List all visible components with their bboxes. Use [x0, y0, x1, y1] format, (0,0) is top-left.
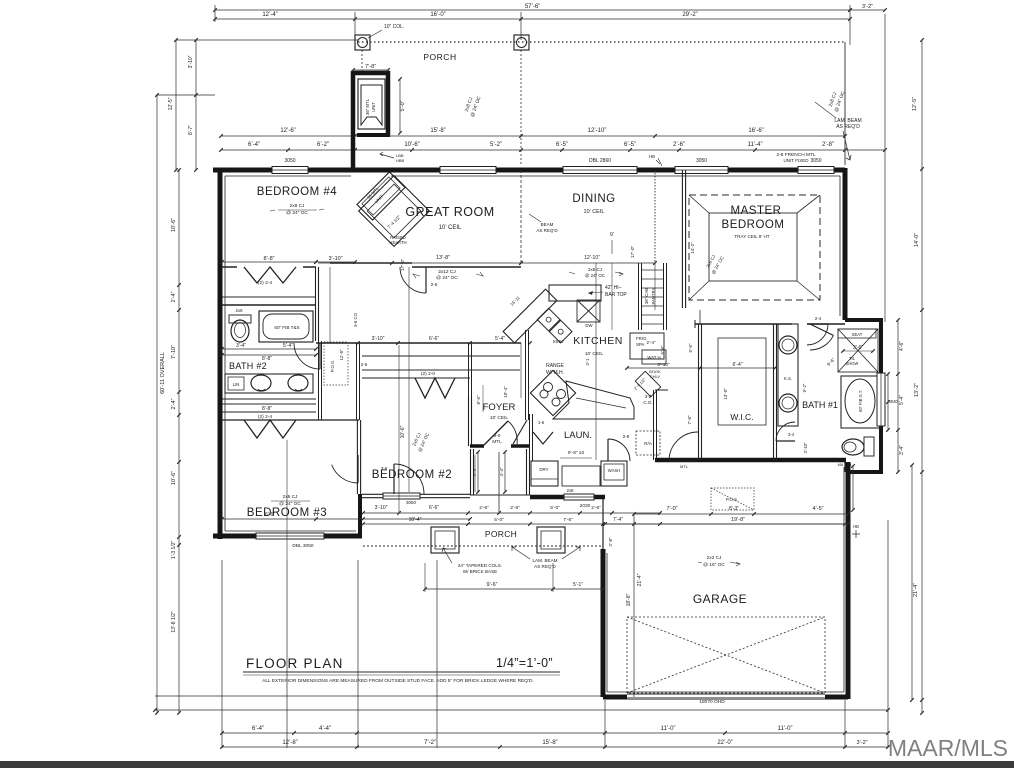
svg-text:SPA: SPA	[636, 342, 645, 347]
svg-text:BEDROOM: BEDROOM	[722, 219, 785, 231]
svg-text:FOYER: FOYER	[483, 402, 516, 413]
svg-text:3050: 3050	[696, 158, 707, 164]
svg-text:MTL: MTL	[492, 439, 502, 445]
svg-text:7’-10”: 7’-10”	[171, 345, 177, 359]
svg-text:42” HI–: 42” HI–	[605, 285, 622, 291]
svg-text:BEAM: BEAM	[541, 222, 554, 227]
svg-text:BEDROOM #4: BEDROOM #4	[257, 186, 338, 198]
svg-text:7’-0”: 7’-0”	[666, 506, 677, 512]
svg-text:HBB: HBB	[396, 158, 405, 163]
svg-text:1/4”=1’-0”: 1/4”=1’-0”	[496, 656, 553, 670]
svg-text:2x8 CJ: 2x8 CJ	[283, 494, 299, 500]
svg-text:5’-4”: 5’-4”	[899, 395, 905, 405]
svg-text:6’-4”: 6’-4”	[252, 726, 264, 732]
svg-text:10’-6”: 10’-6”	[400, 425, 406, 438]
svg-text:3’-1: 3’-1	[585, 358, 590, 366]
svg-text:FRIG: FRIG	[636, 336, 647, 341]
svg-text:2’-8”: 2’-8”	[822, 142, 834, 148]
svg-text:7’-4”: 7’-4”	[613, 517, 623, 523]
svg-text:2’-6”: 2’-6”	[510, 505, 520, 511]
svg-text:PORCH: PORCH	[423, 52, 456, 62]
svg-text:6’-6”: 6’-6”	[265, 512, 275, 518]
svg-text:1’-3 1/2”: 1’-3 1/2”	[171, 540, 177, 559]
svg-text:8’-3”: 8’-3”	[729, 506, 739, 512]
svg-text:LIN: LIN	[233, 382, 240, 387]
svg-text:AS REQ’D: AS REQ’D	[536, 228, 558, 233]
svg-text:18’-8”: 18’-8”	[626, 593, 632, 606]
svg-text:3050: 3050	[284, 158, 295, 164]
svg-text:11’-0”: 11’-0”	[778, 726, 793, 732]
svg-text:LAM. BEAM: LAM. BEAM	[532, 558, 557, 563]
svg-text:6’-5”: 6’-5”	[556, 142, 568, 148]
svg-text:SEAT: SEAT	[852, 332, 863, 337]
svg-text:14’-2”: 14’-2”	[690, 242, 695, 254]
svg-text:8’-8”: 8’-8”	[263, 256, 274, 262]
svg-text:K.S.: K.S.	[784, 376, 792, 381]
svg-text:2-4: 2-4	[815, 316, 822, 321]
svg-text:3050: 3050	[406, 500, 417, 505]
svg-text:2’-6”: 2’-6”	[673, 142, 685, 148]
svg-text:5’-1”: 5’-1”	[573, 582, 583, 588]
svg-text:36” CAB: 36” CAB	[644, 288, 649, 304]
svg-text:57’-6”: 57’-6”	[525, 4, 540, 10]
svg-text:3-6: 3-6	[381, 466, 388, 471]
svg-text:10’-6”: 10’-6”	[171, 218, 177, 232]
svg-text:5’-0”: 5’-0”	[550, 505, 560, 511]
svg-text:15’-8”: 15’-8”	[542, 740, 557, 746]
svg-text:KITCHEN: KITCHEN	[573, 335, 623, 347]
svg-text:2x8: 2x8	[567, 488, 574, 493]
svg-text:2-8: 2-8	[623, 434, 630, 439]
svg-text:3’-10”: 3’-10”	[803, 442, 808, 454]
svg-text:19’-8”: 19’-8”	[731, 517, 745, 523]
svg-text:4’-4”: 4’-4”	[319, 726, 331, 732]
svg-text:12’-5”: 12’-5”	[168, 97, 174, 110]
svg-text:BATH #2: BATH #2	[229, 361, 267, 371]
svg-text:17’-0”: 17’-0”	[400, 258, 406, 271]
svg-text:15’-8”: 15’-8”	[430, 128, 445, 134]
svg-text:DRY: DRY	[539, 467, 548, 472]
svg-text:5’-6”: 5’-6”	[660, 345, 665, 355]
svg-text:10’-4”: 10’-4”	[503, 386, 508, 398]
svg-text:9’: 9’	[610, 232, 614, 238]
svg-text:21’-4”: 21’-4”	[637, 573, 643, 586]
svg-text:7’-6”: 7’-6”	[563, 517, 573, 523]
svg-text:DBL 2860: DBL 2860	[589, 158, 611, 164]
svg-text:13’-0”: 13’-0”	[723, 388, 728, 400]
svg-text:(2) 2-0: (2) 2-0	[421, 371, 435, 377]
svg-text:HB: HB	[853, 524, 859, 529]
svg-text:@ 24” OC: @ 24” OC	[585, 273, 606, 278]
svg-text:2’-4”: 2’-4”	[646, 340, 656, 345]
svg-text:10’-6”: 10’-6”	[404, 142, 419, 148]
svg-text:SHLV: SHLV	[650, 374, 660, 379]
svg-text:3’-2”: 3’-2”	[856, 740, 867, 746]
svg-text:2’-6”: 2’-6”	[479, 505, 489, 511]
svg-text:2’-8”: 2’-8”	[608, 537, 613, 547]
svg-text:60” FIB G.T.: 60” FIB G.T.	[858, 390, 863, 412]
svg-text:36” MTL: 36” MTL	[365, 98, 370, 115]
svg-text:11’-4”: 11’-4”	[748, 142, 763, 148]
svg-text:7’-8”: 7’-8”	[365, 64, 376, 70]
svg-text:2x2 CJ: 2x2 CJ	[707, 555, 723, 561]
svg-text:4’-4”: 4’-4”	[472, 467, 477, 477]
svg-text:SINK: SINK	[553, 339, 565, 344]
svg-text:6’-6”: 6’-6”	[429, 505, 439, 511]
svg-text:7’-2”: 7’-2”	[424, 740, 436, 746]
svg-text:10’ CEIL: 10’ CEIL	[585, 351, 604, 357]
svg-text:BEDROOM #3: BEDROOM #3	[247, 507, 327, 519]
svg-text:2-6: 2-6	[431, 282, 438, 287]
svg-text:DINING: DINING	[572, 193, 615, 205]
svg-text:9’-2”: 9’-2”	[802, 383, 807, 392]
svg-text:10’-6”: 10’-6”	[171, 471, 177, 485]
svg-text:2-8: 2-8	[681, 458, 688, 463]
svg-text:6’-2”: 6’-2”	[317, 142, 329, 148]
svg-text:WASH: WASH	[608, 468, 620, 473]
svg-text:MAAR/MLS: MAAR/MLS	[888, 735, 1008, 761]
svg-text:10’ CEIL: 10’ CEIL	[439, 225, 462, 231]
svg-text:5’-4”: 5’-4”	[283, 343, 293, 349]
svg-text:BAR TOP: BAR TOP	[605, 292, 627, 298]
svg-text:2’-4”: 2’-4”	[171, 291, 177, 302]
svg-text:P.O.S.: P.O.S.	[726, 497, 738, 502]
svg-text:UNIT: UNIT	[371, 102, 376, 112]
svg-text:MASTER: MASTER	[731, 205, 782, 217]
svg-text:3’-4”: 3’-4”	[899, 445, 905, 455]
svg-text:9’-8” 10: 9’-8” 10	[568, 450, 585, 456]
svg-text:2-6: 2-6	[361, 362, 368, 367]
svg-text:5’-4”: 5’-4”	[495, 336, 505, 342]
svg-text:3-0: 3-0	[645, 394, 652, 399]
svg-text:3050: 3050	[810, 158, 821, 164]
svg-text:13’-2”: 13’-2”	[914, 383, 920, 397]
svg-text:@ 24” OC: @ 24” OC	[279, 501, 301, 507]
svg-text:8’-7”: 8’-7”	[188, 125, 194, 135]
svg-text:2030: 2030	[580, 503, 591, 509]
svg-text:@ 24” OC: @ 24” OC	[436, 275, 458, 281]
svg-text:LAUN.: LAUN.	[564, 430, 592, 441]
svg-text:5’-2”: 5’-2”	[490, 142, 502, 148]
svg-text:P.O.S.: P.O.S.	[330, 360, 335, 372]
svg-text:9’-6”: 9’-6”	[486, 582, 497, 588]
svg-text:60” FIB T&S: 60” FIB T&S	[274, 325, 299, 330]
svg-text:3-4: 3-4	[788, 432, 795, 437]
svg-text:SHOW: SHOW	[846, 361, 859, 366]
svg-text:PORCH: PORCH	[485, 529, 517, 539]
svg-text:MA TOIL: MA TOIL	[838, 463, 853, 467]
svg-text:3’-10”: 3’-10”	[375, 505, 388, 511]
svg-text:12’-8”: 12’-8”	[282, 740, 297, 746]
svg-text:3’-10”: 3’-10”	[328, 256, 342, 262]
svg-text:2x12 CJ: 2x12 CJ	[438, 269, 456, 275]
svg-text:4’-4”: 4’-4”	[499, 467, 504, 477]
svg-text:13’-8 1/2”: 13’-8 1/2”	[171, 611, 177, 632]
svg-text:AS REQ’D: AS REQ’D	[836, 124, 860, 130]
svg-text:21’-4”: 21’-4”	[913, 583, 919, 597]
svg-text:4’-5”: 4’-5”	[812, 506, 823, 512]
svg-text:C.O.: C.O.	[643, 400, 652, 405]
svg-text:6’-4”: 6’-4”	[732, 362, 742, 368]
svg-text:22’-0”: 22’-0”	[717, 740, 732, 746]
svg-text:W/ BRICK BASE: W/ BRICK BASE	[463, 569, 497, 574]
svg-text:6’-6”: 6’-6”	[429, 336, 439, 342]
svg-text:(2) 2-4: (2) 2-4	[258, 414, 272, 420]
svg-text:14’-0”: 14’-0”	[914, 233, 920, 247]
svg-text:3’-4”: 3’-4”	[236, 343, 246, 349]
svg-text:RANGE: RANGE	[546, 363, 564, 369]
svg-text:GARAGE: GARAGE	[693, 592, 747, 606]
svg-text:12’-10”: 12’-10”	[588, 128, 607, 134]
svg-text:3’-10”: 3’-10”	[657, 362, 670, 368]
svg-text:8’-6”: 8’-6”	[476, 395, 481, 405]
svg-text:16’-0”: 16’-0”	[430, 12, 445, 18]
svg-text:16’-6”: 16’-6”	[748, 128, 763, 134]
svg-text:DBL 3050: DBL 3050	[292, 543, 313, 549]
svg-text:12’-5”: 12’-5”	[912, 97, 918, 111]
svg-text:12’-6”: 12’-6”	[280, 128, 295, 134]
svg-text:UNIT FIXED: UNIT FIXED	[784, 158, 810, 163]
svg-text:10’-4”: 10’-4”	[409, 517, 422, 523]
svg-text:@ 16” OC: @ 16” OC	[703, 562, 725, 568]
svg-text:10” COL.: 10” COL.	[384, 24, 404, 30]
svg-text:MTL: MTL	[680, 464, 689, 469]
svg-text:10’ CEIL: 10’ CEIL	[584, 209, 605, 215]
svg-text:3’-6”: 3’-6”	[853, 345, 863, 351]
svg-text:8’-8”: 8’-8”	[262, 406, 272, 412]
svg-text:5’-6”: 5’-6”	[688, 343, 693, 353]
svg-text:TRAY CEIL 9’ HT: TRAY CEIL 9’ HT	[734, 234, 769, 239]
svg-text:10’ CEIL: 10’ CEIL	[490, 415, 509, 421]
svg-text:DW: DW	[585, 323, 593, 328]
svg-text:1-6: 1-6	[538, 420, 545, 425]
svg-text:3’-10”: 3’-10”	[188, 55, 194, 68]
svg-text:24” TAPERED COLS.: 24” TAPERED COLS.	[458, 563, 502, 568]
svg-text:12’-6”: 12’-6”	[339, 349, 344, 361]
svg-text:3’-10”: 3’-10”	[372, 336, 385, 342]
svg-text:18070 OHD: 18070 OHD	[699, 699, 725, 705]
svg-text:3-6 CO: 3-6 CO	[353, 312, 358, 327]
svg-text:17’-0”: 17’-0”	[630, 245, 636, 258]
svg-text:6’-4”: 6’-4”	[248, 142, 260, 148]
svg-text:BATH #1: BATH #1	[802, 400, 838, 410]
svg-text:@ 24” OC: @ 24” OC	[286, 210, 308, 216]
svg-text:WAT H: WAT H	[647, 355, 660, 360]
svg-text:2x8 CJ: 2x8 CJ	[290, 203, 306, 209]
svg-text:12’-10”: 12’-10”	[584, 255, 600, 261]
svg-text:HEARTH: HEARTH	[389, 240, 406, 245]
svg-text:2’-6”: 2’-6”	[591, 505, 601, 511]
svg-text:(2) 2-4: (2) 2-4	[258, 280, 272, 286]
svg-text:29’-2”: 29’-2”	[682, 12, 697, 18]
svg-text:11’-0”: 11’-0”	[661, 726, 676, 732]
svg-text:4’-6”: 4’-6”	[899, 341, 905, 351]
svg-text:12’-4”: 12’-4”	[262, 12, 277, 18]
svg-text:R/A: R/A	[644, 441, 653, 446]
svg-text:HB: HB	[649, 154, 655, 159]
svg-text:FLOOR PLAN: FLOOR PLAN	[246, 656, 344, 671]
svg-text:PANTRY: PANTRY	[651, 287, 656, 304]
svg-text:60’-11 OVERALL: 60’-11 OVERALL	[160, 352, 166, 394]
svg-text:ALL EXTERIOR DIMENSIONS ARE ME: ALL EXTERIOR DIMENSIONS ARE MEASURED FRO…	[262, 678, 534, 684]
svg-text:3’-2”: 3’-2”	[862, 4, 873, 10]
svg-text:5’-0”: 5’-0”	[494, 517, 504, 523]
svg-text:2’-4”: 2’-4”	[171, 398, 177, 409]
svg-text:4040: 4040	[888, 399, 898, 404]
svg-text:GREAT ROOM: GREAT ROOM	[405, 205, 494, 219]
svg-text:7’-6”: 7’-6”	[687, 415, 692, 425]
svg-text:6’-5”: 6’-5”	[624, 142, 636, 148]
svg-text:13’-8”: 13’-8”	[436, 255, 450, 261]
svg-text:W.I.C.: W.I.C.	[730, 412, 753, 422]
svg-text:2x6 CJ: 2x6 CJ	[588, 267, 602, 272]
svg-text:2x8: 2x8	[236, 308, 244, 313]
svg-text:5’-0”: 5’-0”	[400, 100, 406, 111]
